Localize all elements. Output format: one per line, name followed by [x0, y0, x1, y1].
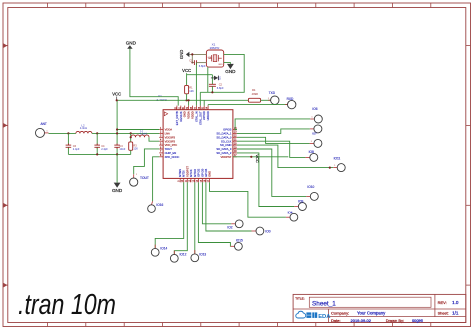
svg-text:1/1: 1/1 — [452, 311, 459, 316]
svg-text:MTDO: MTDO — [193, 169, 197, 177]
svg-text:EXT_RSTB: EXT_RSTB — [175, 111, 179, 125]
svg-text:VDD3P3: VDD3P3 — [165, 135, 176, 139]
svg-text:2.4pF: 2.4pF — [73, 147, 80, 151]
svg-text:GPIO4: GPIO4 — [204, 168, 208, 177]
svg-text:IO14: IO14 — [160, 247, 167, 251]
svg-text:GND: GND — [183, 111, 187, 117]
svg-text:Your Company: Your Company — [357, 311, 386, 316]
svg-text:1.0: 1.0 — [452, 300, 459, 305]
svg-text:.tran 10m: .tran 10m — [18, 289, 116, 321]
svg-text:6.8pF: 6.8pF — [217, 86, 224, 90]
svg-text:RES12K: RES12K — [179, 111, 183, 122]
svg-text:26MHz: 26MHz — [210, 46, 220, 50]
svg-text:SD_DATA_0: SD_DATA_0 — [216, 135, 231, 139]
svg-text:VDDPST: VDDPST — [220, 155, 231, 159]
svg-text:GND: GND — [218, 64, 223, 66]
svg-text:IO10: IO10 — [307, 185, 314, 189]
svg-text:VCC: VCC — [255, 154, 260, 163]
svg-text:MTDI: MTDI — [182, 170, 186, 177]
svg-text:VDDA: VDDA — [187, 111, 191, 119]
svg-text:SD_CMD: SD_CMD — [220, 143, 231, 147]
svg-text:ANT: ANT — [41, 122, 47, 126]
svg-text:SD_DATA_2: SD_DATA_2 — [216, 151, 231, 155]
svg-text:IO4: IO4 — [288, 211, 293, 215]
svg-text:sogen: sogen — [412, 318, 424, 323]
svg-text:LNA: LNA — [165, 132, 170, 136]
svg-text:IO7: IO7 — [312, 132, 317, 136]
svg-text:4.3nH: 4.3nH — [80, 126, 87, 130]
svg-text:12K: 12K — [133, 146, 138, 150]
svg-text:VDDA: VDDA — [165, 128, 173, 132]
svg-text:Drawn By:: Drawn By: — [386, 318, 404, 323]
svg-text:IO2: IO2 — [227, 226, 232, 230]
svg-text:2.4pF: 2.4pF — [101, 147, 108, 151]
svg-text:MTCK: MTCK — [189, 169, 193, 177]
svg-text:VDDD: VDDD — [191, 111, 195, 119]
svg-text:IO9: IO9 — [298, 199, 303, 203]
svg-text:SD_DATA_1: SD_DATA_1 — [216, 132, 231, 136]
svg-text:C1: C1 — [189, 58, 193, 62]
svg-text:Sheet_1: Sheet_1 — [312, 301, 336, 308]
svg-text:SD_DATA_3: SD_DATA_3 — [216, 147, 231, 151]
svg-text:VDD_RTC: VDD_RTC — [165, 143, 178, 147]
svg-text:U0TXD: U0TXD — [202, 111, 206, 120]
svg-text:GND: GND — [112, 188, 123, 193]
svg-text:EDA: EDA — [318, 314, 331, 320]
svg-text:SD_CLK: SD_CLK — [221, 139, 232, 143]
svg-text:GPIO5: GPIO5 — [223, 128, 232, 132]
svg-text:TITLE:: TITLE: — [295, 296, 304, 300]
svg-text:GND: GND — [126, 40, 137, 45]
svg-text:IO13: IO13 — [199, 253, 206, 257]
svg-text:D1: D1 — [218, 76, 222, 80]
svg-text:XPD_DCDC: XPD_DCDC — [165, 155, 180, 159]
svg-text:XTAL_OUT: XTAL_OUT — [198, 111, 202, 125]
svg-text:CHIP_EN: CHIP_EN — [165, 151, 177, 155]
svg-text:IO0: IO0 — [265, 229, 270, 233]
svg-text:GPIO0: GPIO0 — [200, 168, 204, 177]
svg-text:C2: C2 — [219, 82, 223, 86]
svg-text:MTMS: MTMS — [178, 169, 182, 177]
svg-text:10nF: 10nF — [119, 147, 125, 151]
svg-text:TXD: TXD — [269, 91, 276, 95]
svg-text:IO15: IO15 — [236, 239, 243, 243]
svg-text:U0RXD: U0RXD — [206, 111, 210, 120]
svg-text:VCC: VCC — [182, 68, 191, 73]
svg-text:GND: GND — [179, 50, 184, 59]
svg-text:VDDPST: VDDPST — [185, 166, 189, 177]
svg-text:IO6: IO6 — [312, 107, 317, 111]
svg-text:2019-09-02: 2019-09-02 — [351, 318, 372, 323]
svg-text:TOUT: TOUT — [140, 176, 149, 180]
svg-text:RXD: RXD — [287, 97, 294, 101]
svg-text:IO11: IO11 — [334, 156, 341, 160]
svg-text:GPIO2: GPIO2 — [196, 168, 200, 177]
svg-text:499R: 499R — [252, 92, 258, 96]
svg-text:IO16: IO16 — [156, 203, 163, 207]
svg-text:XTAL_IN: XTAL_IN — [194, 111, 198, 122]
svg-text:REV:: REV: — [438, 300, 447, 305]
svg-text:12K: 12K — [189, 89, 194, 93]
svg-text:IO8: IO8 — [309, 150, 314, 154]
svg-text:GND: GND — [208, 171, 212, 177]
svg-text:Sheet:: Sheet: — [438, 312, 449, 316]
svg-text:6.8pF: 6.8pF — [199, 64, 206, 68]
svg-text:R4: R4 — [252, 88, 256, 92]
svg-text:4.2nH: 4.2nH — [140, 131, 147, 135]
svg-text:IO12: IO12 — [179, 253, 186, 257]
svg-text:Company:: Company: — [331, 311, 349, 316]
svg-text:VDD3P3: VDD3P3 — [165, 139, 176, 143]
svg-text:VCC: VCC — [112, 92, 121, 97]
svg-text:GND: GND — [208, 57, 213, 59]
svg-text:GND: GND — [225, 69, 236, 74]
svg-text:Date:: Date: — [331, 318, 341, 323]
svg-text:TOUT: TOUT — [165, 147, 173, 151]
